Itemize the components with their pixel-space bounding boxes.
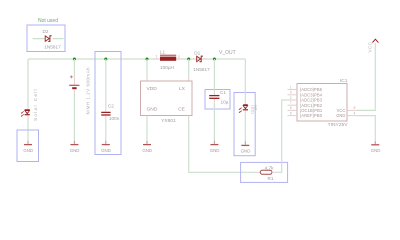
svg-text:GND: GND [142, 148, 152, 153]
svg-text:IC1: IC1 [340, 78, 348, 84]
svg-text:2: 2 [178, 55, 180, 59]
svg-text:6: 6 [290, 106, 292, 110]
svg-text:1: 1 [156, 55, 158, 59]
svg-text:NiMH 1.2V 600mAh: NiMH 1.2V 600mAh [86, 67, 91, 115]
junction LX [187, 58, 190, 61]
inductor L1 [160, 55, 176, 61]
junction C2 [104, 58, 107, 61]
svg-text:3: 3 [290, 91, 292, 95]
svg-text:D1: D1 [194, 50, 200, 55]
svg-text:5: 5 [290, 111, 292, 115]
pin battery + [73, 77, 75, 85]
wire main V_IN rail [28, 58, 245, 60]
svg-text:Solar Cell: Solar Cell [33, 88, 39, 121]
frame box (R1) [241, 162, 288, 182]
svg-text:7: 7 [290, 101, 292, 105]
svg-text:TINY25V: TINY25V [328, 122, 349, 128]
svg-text:1N5817: 1N5817 [44, 45, 61, 50]
frame box (solar gnd) [17, 130, 39, 162]
junction C1 / V_OUT [213, 58, 216, 61]
pin VCC (8) [347, 109, 357, 111]
svg-text:GND: GND [241, 149, 251, 154]
LED LED1 [239, 105, 248, 113]
wire GND net [357, 116, 375, 143]
svg-text:GND: GND [336, 113, 345, 118]
svg-text:VDD: VDD [147, 86, 158, 92]
svg-text:10µ: 10µ [221, 100, 229, 105]
svg-text:V_OUT: V_OUT [219, 50, 236, 56]
wire LED top [244, 59, 246, 102]
pin C2 bottom [105, 116, 107, 120]
wire LED bottom [244, 110, 246, 114]
pin D1 cathode [203, 58, 207, 60]
junction battery [73, 58, 76, 61]
pin LX [188, 76, 190, 81]
svg-text:VCC: VCC [367, 42, 372, 53]
resistor R1 [260, 170, 272, 174]
pin L1.1 [153, 58, 161, 60]
svg-text:(AREF)PB0: (AREF)PB0 [300, 113, 323, 118]
junction VDD [146, 58, 149, 61]
pin C2 top [105, 108, 107, 111]
wire VDD [146, 59, 148, 76]
svg-text:100n: 100n [109, 116, 120, 121]
svg-text:R1: R1 [268, 176, 274, 181]
svg-text:L1: L1 [160, 49, 166, 54]
frame box (C1) [205, 90, 230, 110]
ground GND (LED) [241, 142, 251, 154]
diode D1 [197, 56, 203, 62]
capacitor C1 [209, 96, 219, 99]
wire R1 to PB3 [277, 100, 288, 172]
pin C1 top [213, 92, 215, 95]
ground GND (C1) [210, 141, 220, 153]
diode D2 [45, 36, 51, 42]
ground GND (battery) [70, 141, 80, 153]
pin R1.2 [272, 171, 277, 173]
svg-text:GND: GND [101, 148, 111, 153]
supply VCC arrow [372, 39, 378, 42]
wire C2 top [105, 59, 107, 108]
wire GND (YX801) [146, 121, 148, 143]
svg-text:CE: CE [178, 107, 186, 113]
pin GND (4) [347, 115, 357, 117]
svg-text:LX: LX [179, 86, 186, 92]
wire LX [188, 59, 190, 76]
svg-text:GND: GND [371, 148, 381, 153]
pin PB5 (1) [288, 89, 298, 91]
pin PB2 (7) [288, 104, 298, 106]
pin L1.2 [176, 58, 183, 60]
wire C1 top [213, 59, 215, 92]
svg-text:1: 1 [290, 85, 292, 89]
pin PB0 (5) [288, 115, 298, 117]
wire CE to R1 [189, 121, 257, 173]
svg-text:1N5817: 1N5817 [193, 67, 210, 72]
svg-text:4.7k: 4.7k [265, 165, 275, 170]
svg-text:YX801: YX801 [161, 118, 176, 124]
IC U2 YX801 body [141, 81, 193, 116]
ground GND (IC1) [371, 142, 381, 154]
svg-text:red: red [253, 105, 257, 111]
pin D1 anode [193, 58, 197, 60]
svg-text:8: 8 [354, 106, 356, 110]
battery B1 [69, 75, 79, 88]
pin PB4 (3) [288, 94, 298, 96]
svg-text:D2: D2 [43, 29, 49, 34]
frame box (LED) [234, 93, 255, 156]
ground GND (solar) [23, 141, 33, 153]
solar cell D3 [21, 110, 30, 117]
svg-text:GND: GND [70, 148, 80, 153]
svg-text:2: 2 [290, 96, 292, 100]
wire battery bottom [73, 94, 75, 143]
pin CE (YX801) [188, 116, 190, 121]
svg-text:Not used: Not used [38, 18, 58, 24]
pin PB1 (6) [288, 109, 298, 111]
svg-text:GND: GND [210, 148, 220, 153]
pin C1 bottom [213, 99, 215, 103]
frame box (C2) [95, 52, 121, 155]
svg-text:4: 4 [354, 111, 356, 115]
frame box "Not used" [27, 25, 65, 52]
svg-text:C1: C1 [220, 90, 226, 95]
wire battery top [73, 59, 75, 77]
svg-text:GND: GND [147, 107, 158, 113]
capacitor C2 [101, 112, 110, 115]
wire D2 stubs [33, 38, 64, 40]
ground GND (YX801) [142, 141, 152, 153]
pin VDD [146, 76, 148, 81]
wire C2 bottom [105, 120, 107, 143]
ground GND (C2) [101, 141, 111, 153]
wire solar cell branch [27, 59, 29, 143]
wire VCC net [357, 43, 375, 110]
pin PB3 (2) [288, 99, 298, 101]
pin GND (YX801) [146, 116, 148, 121]
IC IC1 TINY25V body [297, 84, 347, 122]
svg-text:C2: C2 [108, 103, 114, 108]
pin battery - [73, 89, 75, 93]
svg-text:GND: GND [23, 148, 33, 153]
wire C1 bottom [213, 103, 215, 143]
svg-text:100µH: 100µH [160, 65, 174, 70]
pin R1.1 [257, 171, 261, 173]
